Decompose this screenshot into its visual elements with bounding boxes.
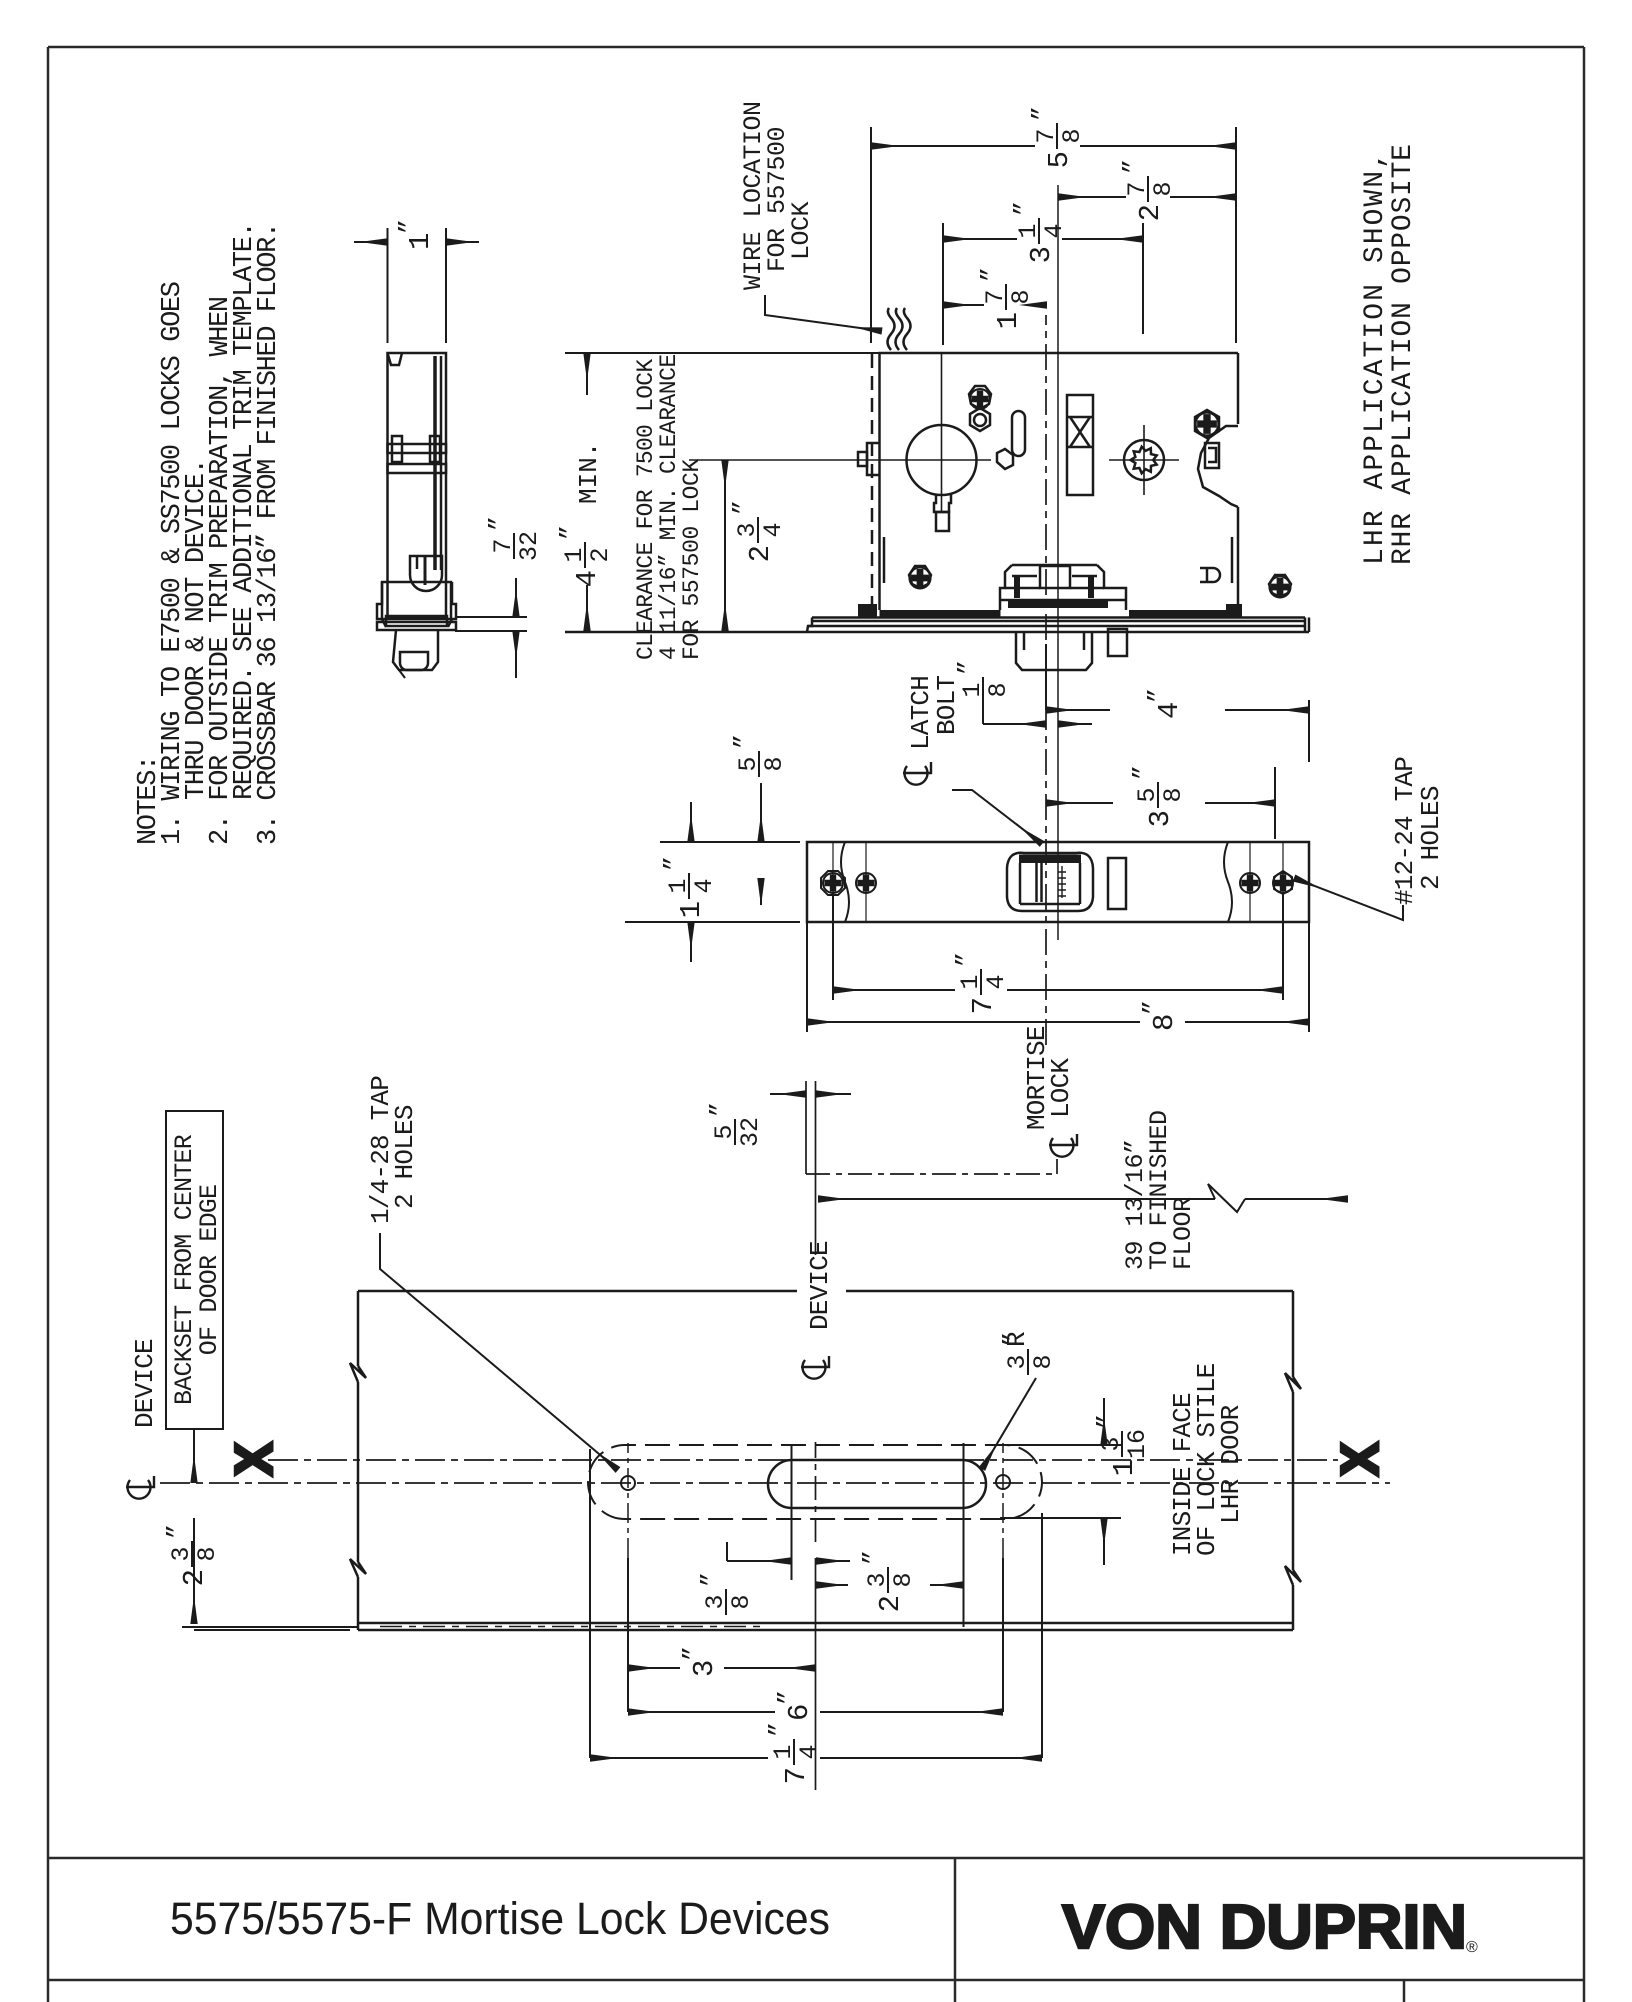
svg-text:”: ” <box>395 219 424 234</box>
svg-text:LHR DOOR: LHR DOOR <box>1216 1405 1246 1524</box>
latch bolt label <box>903 762 931 785</box>
svg-text:”: ” <box>556 525 585 540</box>
dim 3 1/4 <box>943 223 1143 345</box>
svg-text:VON DUPRIN: VON DUPRIN <box>1062 1893 1467 1962</box>
svg-text:”: ” <box>679 1646 708 1661</box>
svg-text:3: 3 <box>1144 810 1177 827</box>
svg-text:FLOOR: FLOOR <box>1169 1197 1198 1270</box>
svg-text:”: ” <box>163 1524 192 1539</box>
svg-text:2 HOLES: 2 HOLES <box>390 1105 420 1209</box>
svg-text:2 HOLES: 2 HOLES <box>1416 786 1446 890</box>
svg-text:FOR 557500 LOCK: FOR 557500 LOCK <box>679 459 705 660</box>
dim 3 <box>628 1667 816 1669</box>
svg-text:LOCK: LOCK <box>1046 1058 1076 1118</box>
svg-text:4: 4 <box>1040 223 1069 238</box>
svg-text:”: ” <box>660 856 689 871</box>
svg-text:7: 7 <box>967 997 1000 1014</box>
latch bolt on faceplate <box>1007 853 1126 911</box>
backset box <box>166 1111 223 1429</box>
svg-text:RHR APPLICATION OPPOSITE: RHR APPLICATION OPPOSITE <box>1388 145 1419 565</box>
dim 5/32 <box>770 1093 851 1095</box>
svg-text:1: 1 <box>992 312 1025 329</box>
device CL vertical (lower view) <box>815 1558 817 1790</box>
svg-text:3: 3 <box>1025 246 1058 263</box>
svg-text:”: ” <box>1028 106 1057 121</box>
svg-text:3. CROSSBAR 36 13/16” FROM FIN: 3. CROSSBAR 36 13/16” FROM FINISHED FLOO… <box>254 223 284 845</box>
svg-text:8: 8 <box>760 756 789 771</box>
CL device label 2 <box>801 1356 829 1379</box>
svg-text:8: 8 <box>727 1594 756 1609</box>
svg-text:R: R <box>1002 1331 1032 1347</box>
svg-text:1: 1 <box>404 233 437 250</box>
dim 2 3/4 <box>724 460 726 631</box>
dim 2 7/8 <box>1058 196 1236 198</box>
dim 6 <box>628 1711 1003 1713</box>
svg-text:8: 8 <box>1159 787 1188 802</box>
svg-text:®: ® <box>1466 1939 1478 1956</box>
svg-text:MIN.: MIN. <box>574 442 604 504</box>
svg-text:4: 4 <box>982 974 1011 989</box>
stop screw <box>1196 413 1219 436</box>
svg-text:6: 6 <box>783 1704 816 1721</box>
hub tower <box>1067 395 1093 495</box>
wires <box>888 308 911 350</box>
dim 1 1/4 <box>625 802 800 962</box>
svg-text:”: ” <box>765 1722 794 1737</box>
svg-text:”: ” <box>1139 1000 1168 1015</box>
dim 2 3/8 slot <box>816 1584 964 1586</box>
svg-text:X: X <box>1331 1442 1395 1476</box>
svg-text:X: X <box>225 1442 289 1476</box>
svg-text:2: 2 <box>178 1569 211 1586</box>
main lock body view <box>565 353 1309 632</box>
door edge extension <box>182 1626 358 1628</box>
svg-text:”: ” <box>952 952 981 967</box>
svg-text:2: 2 <box>874 1595 907 1612</box>
svg-text:7: 7 <box>780 1767 813 1784</box>
svg-text:8: 8 <box>889 1572 918 1587</box>
svg-text:8: 8 <box>1149 181 1178 196</box>
svg-text:”: ” <box>729 500 758 515</box>
dim 1 7/8 <box>943 304 1047 306</box>
side view of device <box>377 353 456 678</box>
latch assembly <box>1000 565 1127 670</box>
svg-text:”: ” <box>1010 201 1039 216</box>
svg-text:32: 32 <box>736 1117 765 1147</box>
svg-text:”: ” <box>1144 688 1173 703</box>
svg-text:2: 2 <box>744 545 777 562</box>
dim 1 3/16 <box>1000 1398 1121 1565</box>
svg-text:2: 2 <box>586 547 615 562</box>
mounting holes <box>621 1475 1010 1490</box>
svg-text:”: ” <box>697 1572 726 1587</box>
svg-text:16: 16 <box>1123 1429 1152 1459</box>
svg-text:”: ” <box>859 1550 888 1565</box>
dim 4 <box>1046 644 1309 762</box>
dim 1 inch <box>354 228 479 343</box>
svg-text:8: 8 <box>984 682 1013 697</box>
svg-text:1: 1 <box>1108 1459 1141 1476</box>
svg-text:4: 4 <box>1153 702 1186 719</box>
screw and nut <box>970 389 990 409</box>
svg-text:4: 4 <box>690 878 719 893</box>
dim 39 13/16 <box>818 1184 1348 1212</box>
mortise lock label leader <box>806 1173 1057 1175</box>
svg-text:4: 4 <box>759 522 788 537</box>
svg-text:4: 4 <box>795 1744 824 1759</box>
svg-text:3: 3 <box>688 1660 721 1677</box>
svg-text:8: 8 <box>1029 1354 1058 1369</box>
svg-text:”: ” <box>1129 765 1158 780</box>
dim 8 <box>807 922 1309 1032</box>
dim 7/32 <box>455 578 527 678</box>
svg-text:8: 8 <box>1148 1014 1181 1031</box>
device silhouette (hidden) <box>588 1445 1042 1519</box>
dim 4 1/2 MIN <box>565 352 880 354</box>
door stile view <box>350 1291 1301 1630</box>
svg-text:”: ” <box>706 1102 735 1117</box>
CL device label <box>126 1476 154 1499</box>
extension lines <box>590 1443 1042 1758</box>
svg-text:32: 32 <box>515 531 544 561</box>
svg-text:8: 8 <box>193 1546 222 1561</box>
svg-text:”: ” <box>1093 1414 1122 1429</box>
svg-text:5575/5575-F Mortise Lock Devic: 5575/5575-F Mortise Lock Devices <box>170 1893 830 1944</box>
svg-text:4: 4 <box>571 570 604 587</box>
svg-text:”: ” <box>774 1690 803 1705</box>
svg-text:2: 2 <box>1134 204 1167 221</box>
svg-text:”: ” <box>485 516 514 531</box>
svg-text:1: 1 <box>675 901 708 918</box>
device CL <box>160 1482 1390 1484</box>
svg-text:LOCK: LOCK <box>787 201 816 260</box>
svg-text:5: 5 <box>1043 151 1076 168</box>
dim 5/8 <box>760 783 762 905</box>
dim 3/8 <box>727 1542 850 1561</box>
svg-text:”: ” <box>1119 159 1148 174</box>
crossbar slot <box>768 1460 986 1508</box>
svg-text:8: 8 <box>1007 289 1036 304</box>
svg-text:”: ” <box>954 660 983 675</box>
dim 7 1/4 lower <box>590 1757 1042 1759</box>
X section line <box>268 1459 1338 1461</box>
cylinder hole <box>907 425 977 531</box>
dim 1/8 <box>983 702 1092 724</box>
svg-text:8: 8 <box>1058 128 1087 143</box>
centerlines <box>1057 185 1059 940</box>
spindle hub <box>1109 425 1179 495</box>
dim 3 5/8 <box>1046 767 1275 839</box>
dim 7 1/4 <box>833 892 1283 1000</box>
svg-text:OF DOOR EDGE: OF DOOR EDGE <box>195 1185 224 1355</box>
dim 5 7/8 <box>871 127 1236 343</box>
svg-text:”: ” <box>730 734 759 749</box>
svg-text:DEVICE: DEVICE <box>130 1339 160 1428</box>
svg-text:DEVICE: DEVICE <box>805 1241 835 1330</box>
faceplate view <box>807 842 1309 922</box>
svg-text:”: ” <box>977 267 1006 282</box>
dim 2 3/8 backset <box>194 1429 350 1630</box>
